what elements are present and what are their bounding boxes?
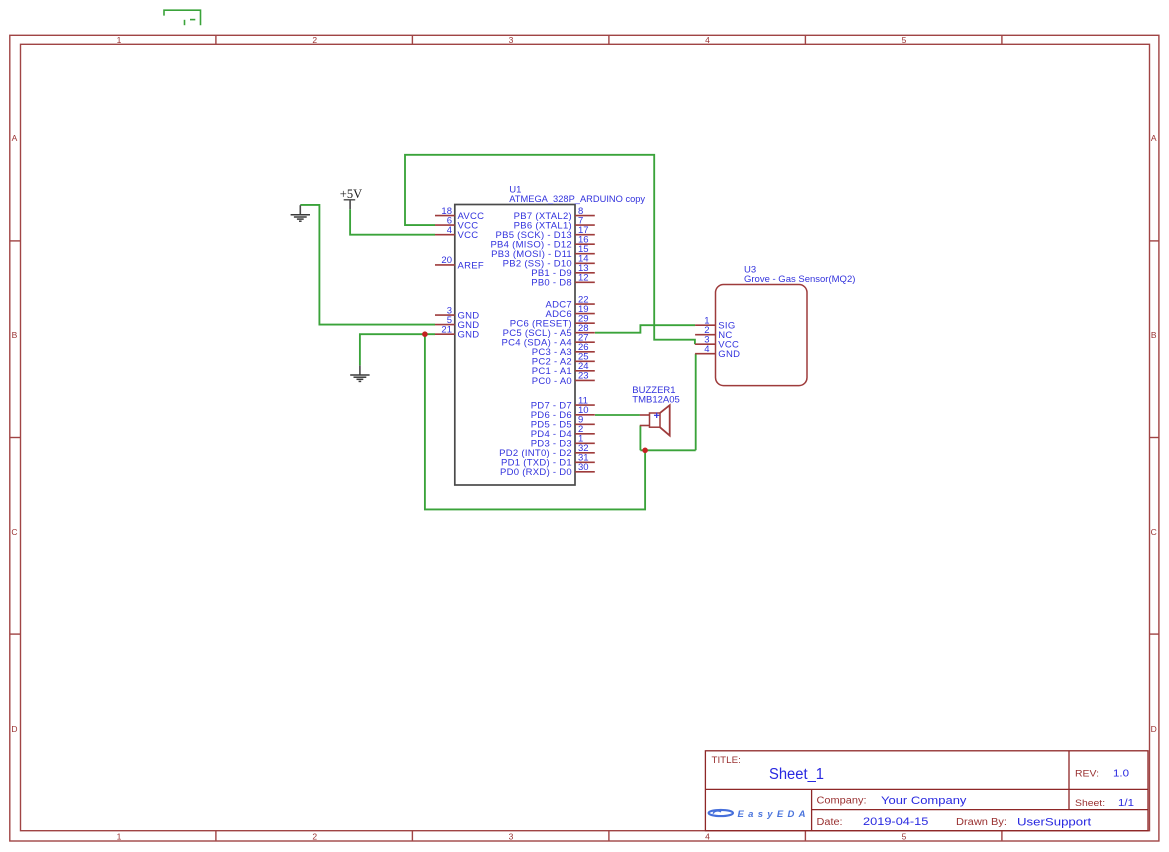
svg-text:TITLE:: TITLE:	[712, 755, 741, 765]
U1 pin 16 PB4 (MISO) - D12	[490, 234, 594, 250]
U1 pin 25 PC2 - A2	[532, 352, 595, 368]
junction dot at buzzer GND	[642, 448, 648, 454]
svg-text:30: 30	[578, 462, 589, 473]
svg-text:2: 2	[312, 831, 317, 841]
svg-text:PC0 - A0: PC0 - A0	[532, 376, 572, 387]
svg-text:Sheet_1: Sheet_1	[769, 766, 824, 783]
clipped net flag (top-left)	[164, 10, 201, 25]
svg-text:21: 21	[441, 324, 452, 335]
svg-text:PB0 - D8: PB0 - D8	[531, 278, 572, 289]
svg-text:GND: GND	[718, 349, 740, 360]
svg-text:5: 5	[902, 831, 907, 841]
U1 pin 1 PD3 - D3	[531, 434, 595, 450]
U1 pin 24 PC1 - A1	[532, 361, 595, 377]
op IC U1 body	[455, 205, 575, 486]
svg-text:12: 12	[578, 273, 589, 284]
svg-text:4: 4	[705, 831, 710, 841]
U1 pin 28 PC5 (SCL) - A5	[503, 323, 595, 339]
svg-text:Drawn By:: Drawn By:	[956, 817, 1007, 828]
svg-text:B: B	[12, 330, 18, 340]
U1 pin 15 PB3 (MOSI) - D11	[491, 244, 595, 260]
svg-text:2: 2	[312, 35, 317, 45]
U1 pin 29 PC6 (RESET)	[510, 313, 595, 329]
svg-text:3: 3	[509, 35, 514, 45]
svg-text:VCC: VCC	[458, 230, 479, 241]
title block lines	[705, 751, 1148, 831]
U1 pin 22 ADC7	[546, 294, 595, 310]
U1 pin 18 AVCC	[435, 206, 484, 222]
U1 pin 17 PB5 (SCK) - D13	[495, 225, 594, 241]
U1 pin 13 PB1 - D9	[531, 263, 595, 279]
U1 pin 23 PC0 - A0	[532, 371, 595, 387]
U1 pin 7 PB6 (XTAL1)	[514, 215, 595, 231]
svg-text:Your Company: Your Company	[881, 795, 967, 807]
svg-text:4: 4	[704, 344, 709, 355]
U3 pin 2 NC	[695, 325, 732, 341]
U1 pin 3 GND	[435, 305, 479, 321]
svg-text:5: 5	[902, 35, 907, 45]
U3 pin 4 GND	[695, 344, 740, 360]
wire: ground2 to pin 21 GND	[360, 334, 435, 365]
U1 pin 30 PD0 (RXD) - D0	[500, 462, 595, 478]
ground symbol 2	[350, 365, 369, 381]
U1 pin 5 GND	[435, 315, 479, 331]
sensor U3 body	[716, 285, 808, 386]
wire: VCC net pin6 / Grove VCC	[405, 155, 695, 344]
junction dot at pin21 net	[422, 331, 428, 337]
wire: pin 28 SCL to Grove SIG	[595, 325, 695, 333]
wire: GND loop to buzzer and Grove GND	[425, 334, 645, 509]
U1 pin 2 PD4 - D4	[531, 424, 595, 440]
wire: +5V to pin 4	[350, 209, 435, 235]
svg-text:Grove - Gas Sensor(MQ2): Grove - Gas Sensor(MQ2)	[744, 274, 855, 285]
svg-text:4: 4	[705, 35, 710, 45]
svg-text:2019-04-15: 2019-04-15	[863, 816, 928, 828]
U1 pin 20 AREF	[435, 255, 484, 271]
svg-text:1: 1	[117, 35, 122, 45]
svg-text:4: 4	[447, 225, 452, 236]
U1 pin 4 VCC	[435, 225, 478, 241]
svg-text:TMB12A05: TMB12A05	[632, 394, 680, 405]
svg-text:D: D	[1151, 724, 1157, 734]
U3 pin 3 VCC	[695, 334, 739, 350]
U1 pin 12 PB0 - D8	[531, 273, 595, 289]
svg-text:3: 3	[509, 831, 514, 841]
svg-text:B: B	[1151, 330, 1157, 340]
svg-text:D: D	[11, 724, 17, 734]
svg-text:Date:: Date:	[817, 817, 843, 828]
svg-text:Company:: Company:	[817, 796, 867, 807]
U1 pin 10 PD6 - D6	[531, 405, 595, 421]
svg-text:A: A	[1151, 133, 1157, 143]
svg-text:REV:: REV:	[1075, 769, 1099, 780]
U1 pin 32 PD2 (INT0) - D2	[499, 443, 595, 459]
U1 pin 6 VCC	[435, 215, 478, 231]
svg-text:1: 1	[117, 831, 122, 841]
U1 pin 31 PD1 (TXD) - D1	[501, 453, 595, 469]
svg-text:20: 20	[441, 255, 452, 266]
U1 pin 26 PC3 - A3	[532, 342, 595, 358]
svg-text:C: C	[11, 527, 17, 537]
buzzer plus sign	[654, 413, 659, 418]
svg-text:Sheet:: Sheet:	[1075, 798, 1105, 809]
svg-text:C: C	[1151, 527, 1157, 537]
svg-text:ATMEGA_328P_ARDUINO copy: ATMEGA_328P_ARDUINO copy	[509, 194, 645, 205]
U1 pin 27 PC4 (SDA) - A4	[502, 332, 595, 348]
U1 pin 11 PD7 - D7	[531, 395, 595, 411]
wire: ground1 to pin 5 GND	[300, 205, 435, 325]
wire: pin 10 D6 to buzzer +	[595, 414, 640, 416]
svg-text:GND: GND	[458, 330, 480, 341]
ground symbol 1	[291, 205, 310, 221]
svg-text:UserSupport: UserSupport	[1017, 817, 1091, 829]
U1 pin 9 PD5 - D5	[531, 415, 595, 431]
U1 pin 21 GND	[435, 324, 479, 340]
buzzer BUZZER1 symbol	[640, 405, 670, 435]
svg-text:1.0: 1.0	[1113, 768, 1129, 780]
U3 pin 1 SIG	[695, 315, 735, 331]
svg-text:A: A	[12, 133, 18, 143]
U1 pin 8 PB7 (XTAL2)	[514, 206, 595, 222]
svg-text:23: 23	[578, 371, 589, 382]
EasyEDA logo	[709, 810, 733, 816]
U1 pin 14 PB2 (SS) - D10	[503, 254, 595, 270]
svg-text:AREF: AREF	[458, 260, 484, 271]
+5V power flag	[344, 200, 356, 209]
svg-text:1/1: 1/1	[1118, 797, 1134, 809]
svg-text:PD0 (RXD) - D0: PD0 (RXD) - D0	[500, 467, 572, 478]
svg-text:+5V: +5V	[340, 187, 362, 201]
U1 pin 19 ADC6	[546, 304, 595, 320]
